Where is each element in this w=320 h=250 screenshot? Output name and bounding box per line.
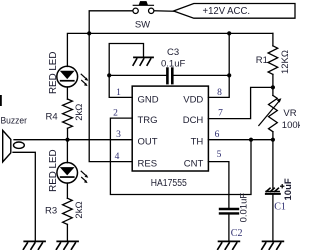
wire TH (pin6) [208, 139, 273, 141]
scan artifact left edge [0, 95, 2, 106]
svg-text:3: 3 [116, 130, 121, 140]
node junction OUT/LED branch [65, 138, 69, 142]
wire V+ to RES (pin 4) [89, 33, 132, 161]
wire OUT to LED2 [66, 140, 68, 163]
node junction TRG route / TH wire [249, 138, 253, 142]
wire top from node to switch [89, 11, 132, 34]
svg-text:TH: TH [191, 137, 204, 148]
svg-text:HA17555: HA17555 [151, 178, 187, 189]
ground (buzzer) [23, 241, 45, 249]
plus sign (C1 polarity) [281, 185, 284, 188]
svg-text:0.1uF: 0.1uF [161, 59, 185, 70]
svg-text:2kΩ: 2kΩ [74, 201, 85, 218]
svg-text:2: 2 [113, 109, 118, 119]
LED D2 RED LED [57, 163, 88, 184]
variable resistor VR [269, 95, 278, 131]
wire DCH (pin7) [208, 87, 273, 118]
svg-text:7: 7 [218, 109, 223, 119]
resistor R1 [268, 46, 278, 75]
wire TH node to C1 [272, 140, 274, 189]
wire C3 left [109, 74, 166, 76]
+12V ACC. supply flag [174, 4, 296, 19]
ground (R3) [56, 241, 78, 249]
svg-text:GND: GND [138, 94, 159, 105]
wire rail to R1 [272, 33, 274, 45]
svg-text:R1: R1 [256, 55, 268, 66]
wire C1 to ground [272, 195, 274, 241]
wire C3 right to VDD branch [174, 74, 230, 76]
svg-text:RED LED: RED LED [48, 149, 59, 191]
svg-text:+12V ACC.: +12V ACC. [203, 6, 251, 17]
svg-text:VDD: VDD [183, 94, 203, 105]
svg-text:RES: RES [138, 158, 158, 169]
wire V+ rail [67, 33, 273, 66]
ground (near C3) [133, 57, 153, 65]
svg-text:Buzzer: Buzzer [1, 116, 28, 127]
svg-text:12KΩ: 12KΩ [280, 50, 291, 74]
wire buzzer to ground [13, 152, 35, 241]
LED D1 RED LED [57, 66, 89, 87]
node junction TH / VR bottom / C1 [271, 138, 275, 142]
wire GND (pin1) to C3 node [109, 75, 132, 97]
wire TRG (pin2) route under IC to TH [110, 118, 251, 194]
resistor R4 [63, 99, 73, 128]
node junction rail/top-wire [87, 31, 91, 35]
svg-text:8: 8 [217, 88, 222, 98]
ground (C1) [262, 241, 284, 249]
wire LED2 to R3 [66, 183, 68, 198]
wire OUT (pin3) to buzzer [14, 139, 132, 141]
node junction GND net / C3 left [107, 73, 111, 77]
svg-text:TRG: TRG [138, 115, 158, 126]
capacitor C1 electrolytic (hatched plate) [266, 188, 280, 194]
resistor R3 [63, 198, 73, 224]
svg-text:100k: 100k [282, 120, 300, 131]
wire R3 to ground [66, 224, 68, 241]
wire R1 to DCH node [272, 74, 274, 87]
wire C2 to ground [228, 215, 230, 242]
wire VDD (pin8) branch [208, 33, 229, 97]
svg-text:CNT: CNT [184, 158, 204, 169]
svg-text:2kΩ: 2kΩ [74, 104, 85, 121]
svg-text:OUT: OUT [138, 137, 158, 148]
capacitor C2 [220, 209, 238, 213]
svg-text:10uF: 10uF [283, 178, 294, 200]
wire DCH node to VR [272, 87, 274, 95]
buzzer (speaker symbol) [3, 130, 25, 162]
wire LED1 to R4 [66, 87, 68, 99]
svg-text:R3: R3 [45, 206, 57, 217]
wire CNT (pin5) to C2 [208, 162, 229, 208]
wire switch to +12V flag [154, 10, 173, 12]
svg-text:0.01uF: 0.01uF [239, 193, 250, 223]
wire VR to TH node [272, 132, 274, 140]
svg-text:C1: C1 [274, 201, 286, 212]
ground (C2) [218, 241, 240, 249]
switch SW [133, 1, 154, 13]
node junction rail/VDD branch [227, 31, 231, 35]
svg-text:6: 6 [215, 130, 220, 140]
svg-text:R4: R4 [46, 112, 58, 123]
svg-text:1: 1 [116, 88, 121, 98]
wire GND loop up to ground symbol [109, 44, 143, 76]
svg-text:RED LED: RED LED [48, 52, 59, 94]
node junction VDD net / C3 right [227, 73, 231, 77]
IC U1 HA17555 box [132, 86, 208, 171]
svg-text:VR: VR [283, 108, 296, 119]
svg-text:SW: SW [135, 19, 150, 30]
node junction R1/DCH/VR [271, 85, 275, 89]
svg-text:DCH: DCH [183, 115, 204, 126]
wire R4 to OUT wire [67, 128, 69, 139]
capacitor C3 [167, 69, 172, 84]
svg-text:4: 4 [115, 152, 120, 162]
svg-text:C3: C3 [167, 47, 179, 58]
svg-text:C2: C2 [231, 228, 243, 239]
svg-text:5: 5 [217, 150, 222, 160]
VR wiper arrow [259, 101, 280, 126]
